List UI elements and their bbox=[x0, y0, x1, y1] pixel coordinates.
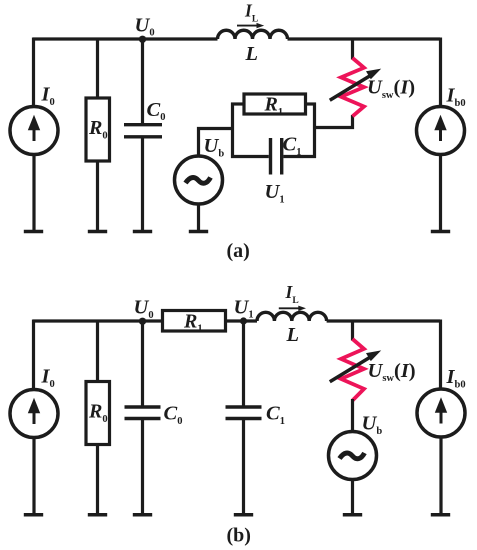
label Usw(I) (a) bbox=[367, 77, 415, 101]
varistor Usw red zigzag (a) bbox=[341, 58, 364, 116]
label Ub (b) bbox=[362, 413, 383, 437]
wire top-left segment bbox=[33, 37, 218, 40]
label R0 (b) bbox=[88, 401, 108, 425]
wire Ub bottom b bbox=[351, 479, 354, 514]
node U0 (a) bbox=[139, 36, 146, 43]
label I0 (b) bbox=[41, 366, 55, 390]
wire Ub to node bbox=[199, 129, 233, 157]
svg-text:R0: R0 bbox=[88, 117, 108, 141]
wire top-right segment bbox=[288, 37, 441, 40]
resistor R0 (a) bbox=[86, 98, 110, 161]
resistor R1 (b) bbox=[163, 311, 226, 332]
wire right vertical top bbox=[439, 38, 442, 108]
wire inductor to right bbox=[327, 319, 440, 322]
svg-text:L: L bbox=[286, 324, 300, 346]
resistor R0 (b) bbox=[86, 382, 110, 445]
current source Ib0 (b) bbox=[417, 389, 465, 437]
ground C1 (b) bbox=[234, 513, 253, 517]
svg-text:C1: C1 bbox=[283, 134, 302, 158]
label U0 (b) bbox=[134, 297, 154, 321]
capacitor C1 (a) bbox=[271, 138, 282, 175]
inductor L (a) bbox=[218, 30, 288, 39]
svg-text:L: L bbox=[245, 43, 259, 65]
label IL (b) bbox=[285, 282, 299, 306]
ground I0 (b) bbox=[24, 513, 43, 517]
caption (b) bbox=[227, 525, 251, 547]
ground Ub (b) bbox=[343, 513, 362, 517]
svg-text:(a): (a) bbox=[227, 240, 250, 262]
svg-text:Ib0: Ib0 bbox=[446, 366, 466, 390]
svg-text:I0: I0 bbox=[41, 84, 55, 108]
wire C1 bottom b bbox=[242, 420, 245, 514]
wire left vertical bbox=[32, 38, 35, 108]
capacitor C0 (b) bbox=[125, 407, 161, 419]
wire R0 bottom b bbox=[96, 445, 99, 514]
svg-text:Ub: Ub bbox=[362, 413, 383, 437]
label Ib0 (b) bbox=[446, 366, 466, 390]
wire block right edge bbox=[313, 103, 316, 159]
label R1 (b) bbox=[183, 310, 203, 334]
svg-text:C1: C1 bbox=[266, 403, 285, 427]
inductor L (b) bbox=[257, 312, 327, 321]
label Ib0 (a) bbox=[446, 85, 466, 109]
label U0 (a) bbox=[135, 14, 155, 38]
svg-text:R1: R1 bbox=[183, 310, 203, 334]
voltage source Ub (a) bbox=[175, 156, 223, 204]
wire C0 top bbox=[141, 39, 144, 123]
current arrow IL (b) bbox=[279, 306, 306, 311]
wire I0 bottom bbox=[32, 155, 35, 231]
ground Ib0 (a) bbox=[431, 230, 450, 234]
svg-text:U0: U0 bbox=[134, 297, 154, 321]
node U0 (b) bbox=[139, 318, 146, 325]
label Ub (a) bbox=[204, 135, 225, 159]
wire right vertical top b bbox=[439, 320, 442, 390]
label L (a) bbox=[245, 43, 259, 65]
label Usw(I) (b) bbox=[368, 360, 416, 384]
wire block bottom left bbox=[231, 155, 269, 158]
ground R0 (a) bbox=[88, 230, 107, 234]
svg-text:R1: R1 bbox=[264, 94, 284, 118]
svg-text:C0: C0 bbox=[164, 403, 183, 427]
ground Ub (a) bbox=[189, 230, 208, 234]
current source I0 (a) bbox=[10, 107, 58, 155]
svg-text:IL: IL bbox=[285, 282, 299, 306]
svg-text:U0: U0 bbox=[135, 14, 155, 38]
wire I0 bottom b bbox=[32, 438, 35, 514]
current source I0 (b) bbox=[10, 390, 58, 438]
wire R0 bottom bbox=[96, 161, 99, 230]
wire R1 to U1 bbox=[226, 319, 258, 322]
current arrow IL (a) bbox=[237, 23, 264, 28]
svg-text:IL: IL bbox=[244, 1, 258, 25]
label C1 (b) bbox=[266, 403, 285, 427]
wire switch top bbox=[351, 38, 354, 60]
svg-text:U1: U1 bbox=[265, 181, 285, 205]
ground I0 (a) bbox=[24, 230, 43, 234]
svg-text:C0: C0 bbox=[147, 99, 166, 123]
label R0 (a) bbox=[88, 117, 108, 141]
wire Ub bottom bbox=[197, 205, 200, 231]
wire top-left segment b bbox=[33, 319, 163, 322]
wire C1 top b bbox=[242, 321, 245, 406]
label C0 (a) bbox=[147, 99, 166, 123]
voltage source Ub (b) bbox=[329, 432, 377, 480]
wire block bottom right bbox=[283, 155, 316, 158]
label C1 (a) bbox=[283, 134, 302, 158]
svg-text:Ub: Ub bbox=[204, 135, 225, 159]
wire C0 bottom b bbox=[141, 420, 144, 514]
label I0 (a) bbox=[41, 84, 55, 108]
svg-text:(b): (b) bbox=[227, 525, 251, 547]
wire C0 top b bbox=[141, 321, 144, 406]
wire block left edge bbox=[231, 103, 234, 159]
svg-text:R0: R0 bbox=[88, 401, 108, 425]
svg-text:U1: U1 bbox=[234, 296, 254, 320]
label U1 (b) bbox=[234, 296, 254, 320]
svg-text:I0: I0 bbox=[41, 366, 55, 390]
label C0 (b) bbox=[164, 403, 183, 427]
caption (a) bbox=[227, 240, 250, 262]
node U1 (b) bbox=[240, 317, 247, 324]
label R1 (a) bbox=[264, 94, 284, 118]
wire Ib0 bottom bbox=[439, 155, 442, 231]
wire switch top b bbox=[351, 320, 354, 341]
ground C0 (b) bbox=[133, 513, 152, 517]
arrow over varistor (b) bbox=[330, 350, 381, 381]
wire switch to Ub b bbox=[351, 399, 354, 433]
ground Ib0 (b) bbox=[431, 513, 450, 517]
svg-text:Usw(I): Usw(I) bbox=[368, 360, 416, 384]
label L (b) bbox=[286, 324, 300, 346]
svg-text:Ib0: Ib0 bbox=[446, 85, 466, 109]
label U1 (a) bbox=[265, 181, 285, 205]
ground R0 (b) bbox=[88, 513, 107, 517]
wire switch to block bbox=[315, 115, 353, 128]
wire C0 bottom bbox=[141, 139, 144, 231]
wire R0 branch top b bbox=[96, 321, 99, 382]
current source Ib0 (a) bbox=[417, 107, 465, 155]
label IL (a) bbox=[244, 1, 258, 25]
resistor R1 (a) bbox=[244, 94, 306, 114]
capacitor C0 (a) bbox=[124, 125, 162, 137]
wire left vertical b bbox=[32, 320, 35, 391]
wire R0 branch top bbox=[96, 39, 99, 98]
wire R1 left stub bbox=[231, 102, 244, 105]
svg-text:Usw(I): Usw(I) bbox=[367, 77, 415, 101]
capacitor C1 (b) bbox=[226, 407, 262, 419]
varistor Usw red zigzag (b) bbox=[341, 339, 364, 401]
wire R1 right stub bbox=[306, 102, 317, 105]
arrow over varistor (a) bbox=[330, 69, 381, 101]
ground C0 (a) bbox=[133, 230, 152, 234]
wire Ib0 bottom b bbox=[439, 437, 442, 514]
